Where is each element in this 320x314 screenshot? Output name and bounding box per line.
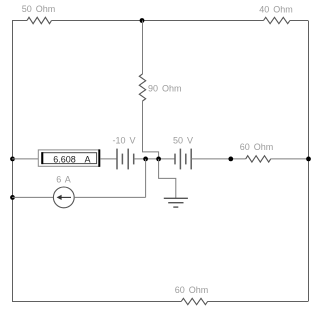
svg-text:50 V: 50 V: [173, 136, 193, 146]
node right rail junction: [306, 157, 311, 162]
svg-text:60 Ohm: 60 Ohm: [240, 142, 274, 152]
wire right rail: [308, 21, 310, 302]
wire left rail to current source: [12, 196, 53, 198]
svg-text:50 Ohm: 50 Ohm: [22, 4, 56, 14]
wire top-middle segment: [52, 20, 264, 22]
node left rail lower junction: [10, 195, 15, 200]
wire middle vertical upper: [142, 21, 144, 75]
wire middle vertical lower with jog: [143, 101, 159, 159]
wire bottom-right segment: [207, 301, 308, 303]
ground: [164, 198, 188, 207]
wire top-right segment: [290, 20, 308, 22]
current source I1 6 A: [53, 175, 74, 208]
resistor R1 50 Ohm: [22, 4, 56, 24]
wire node A down: [145, 159, 147, 198]
battery V2 50 V: [173, 136, 193, 170]
wire battery V2 to resistor: [191, 158, 246, 160]
svg-text:60 Ohm: 60 Ohm: [175, 285, 209, 295]
node left rail meter junction: [10, 157, 15, 162]
svg-text:6.608: 6.608: [53, 155, 76, 165]
svg-text:90 Ohm: 90 Ohm: [148, 84, 182, 94]
node C junction: [228, 157, 233, 162]
svg-text:-10 V: -10 V: [112, 136, 135, 146]
node B junction: [156, 157, 161, 162]
wire bottom-left segment: [12, 301, 181, 303]
battery V1 -10 V: [112, 136, 135, 170]
node A junction: [143, 157, 148, 162]
op-amp? no: ammeter M1 readout: [38, 149, 99, 166]
resistor R2 40 Ohm: [259, 5, 293, 24]
resistor R3 60 Ohm bottom: [175, 285, 209, 305]
svg-text:A: A: [85, 155, 91, 165]
wire top-left segment: [12, 20, 27, 22]
svg-text:6 A: 6 A: [56, 175, 71, 185]
wire ammeter to battery V1: [100, 158, 117, 160]
node top junction: [140, 18, 145, 23]
svg-text:40 Ohm: 40 Ohm: [259, 5, 293, 15]
wire battery V1 to nodes: [134, 158, 175, 160]
wire left rail to ammeter: [12, 158, 38, 160]
wire resistor to right rail: [271, 158, 309, 160]
resistor R4 90 Ohm: [139, 74, 181, 101]
wire node B to ground: [159, 159, 176, 198]
resistor R5 60 Ohm right: [240, 142, 274, 162]
wire left rail: [12, 21, 14, 302]
wire current source to node A vertical: [74, 196, 145, 198]
